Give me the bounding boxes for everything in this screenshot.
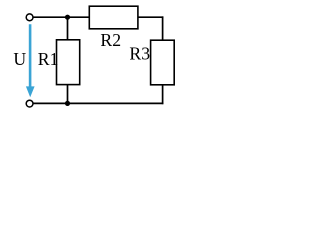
svg-text:R2: R2 bbox=[100, 30, 121, 50]
node A (junction of top rail and R1) bbox=[65, 15, 70, 20]
wire: R3 bottom lead down to bottom rail bbox=[162, 85, 164, 105]
terminal T2 (bottom-left input) bbox=[26, 100, 33, 107]
resistor R2 (body) bbox=[89, 6, 138, 29]
wire: R1 bottom lead from R1 to node B bbox=[67, 85, 69, 104]
wire: R1 top lead from node A down to R1 bbox=[67, 17, 69, 40]
voltage arrow U (shaft) bbox=[29, 24, 32, 88]
wire: top rail from terminal T1 to R2 left pin bbox=[33, 16, 89, 18]
svg-text:R1: R1 bbox=[38, 49, 59, 69]
resistor R1 (body) bbox=[57, 40, 80, 85]
svg-text:R3: R3 bbox=[129, 44, 150, 64]
voltage arrow U (head) bbox=[26, 86, 35, 97]
wire: top rail from R2 right pin to top-right corner bbox=[138, 16, 164, 18]
wire: bottom rail from terminal T2 to R3 branch bbox=[33, 102, 163, 104]
node B (junction of bottom rail and R1) bbox=[65, 101, 70, 106]
terminal T1 (top-left input) bbox=[26, 14, 33, 21]
svg-text:U: U bbox=[13, 49, 26, 69]
wire: right drop from corner down to R3 top pin bbox=[162, 16, 164, 40]
resistor R3 (body) bbox=[151, 40, 175, 85]
